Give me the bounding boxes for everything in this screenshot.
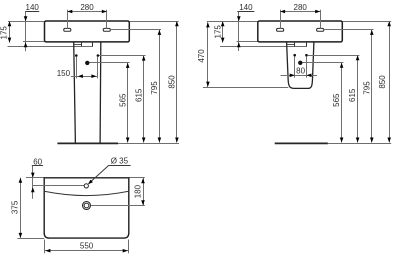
dim 140 arrow down at rim <box>237 16 241 21</box>
dim 280 line <box>280 11 320 13</box>
dim 140 vertical line <box>25 12 27 52</box>
svg-text:565: 565 <box>118 93 127 107</box>
svg-text:175: 175 <box>0 26 8 40</box>
svg-text:375: 375 <box>11 200 20 214</box>
dim 615 line <box>357 55 359 142</box>
dim 850 line <box>389 21 391 142</box>
dim 795 line <box>371 30 373 143</box>
svg-text:140: 140 <box>26 3 40 12</box>
tap hole circle <box>84 184 88 188</box>
floor line thick <box>57 142 118 144</box>
fixing hole left dot <box>293 54 296 57</box>
trap step line <box>287 44 295 46</box>
dim 60 vertical line <box>32 166 34 199</box>
trap notch right edge <box>92 42 94 47</box>
trap step line <box>74 44 82 46</box>
dim 150 arrow left <box>78 74 83 78</box>
svg-text:150: 150 <box>57 69 71 78</box>
drain hole dot <box>298 61 302 65</box>
svg-text:795: 795 <box>362 81 371 95</box>
basin body front view <box>258 21 343 42</box>
dim 60 arrow up <box>31 187 35 192</box>
dim 175 arrow down <box>8 38 12 43</box>
dim 565 line <box>127 63 129 143</box>
ext line drain to 180 <box>91 205 145 207</box>
fixing hole right dot <box>97 54 100 57</box>
basin bottom extension left <box>237 41 258 43</box>
dim 850 line <box>176 21 178 142</box>
dia 35 underline <box>109 165 131 167</box>
rim extension line left <box>207 21 258 23</box>
dim 550 line <box>45 250 129 252</box>
fixing hole left dot <box>75 54 78 57</box>
dim 280 left extension <box>67 10 69 29</box>
dim 565 line <box>341 63 343 143</box>
dim 175 line <box>9 21 11 42</box>
pedestal left edge <box>74 42 76 143</box>
drain inner circle <box>84 203 89 208</box>
svg-text:80: 80 <box>296 67 305 76</box>
dim 280 arrow left <box>67 10 72 14</box>
trap notch left edge <box>294 42 296 47</box>
drain hole dot <box>85 61 89 65</box>
right overflow slot <box>317 28 324 31</box>
svg-text:850: 850 <box>378 75 387 89</box>
floor line thin continuation <box>118 143 179 145</box>
semi-pedestal outline <box>287 42 314 88</box>
dim 280 right extension <box>106 10 108 29</box>
ext line semi-pedestal bottom <box>203 87 288 89</box>
dim 140 arrow down at rim <box>24 16 28 21</box>
dia 35 arrow <box>87 180 93 186</box>
fixing hole right dot <box>305 54 308 57</box>
trap bottom line extended left <box>220 46 307 48</box>
dim 80 arrow pointing right <box>290 74 295 78</box>
rim extension line left <box>8 21 45 23</box>
dim 150 fixing hole ext left <box>76 57 78 79</box>
inner bowl edge curve <box>45 191 128 195</box>
trap notch left edge <box>81 42 83 47</box>
dim 550 ext left <box>44 240 46 254</box>
pedestal right edge <box>99 42 102 143</box>
trap notch right edge <box>306 42 308 47</box>
ext line overflow to 795 <box>110 29 162 31</box>
dim 280 arrow right <box>102 10 107 14</box>
dim 60 underline <box>32 165 43 167</box>
basin body front view <box>45 21 130 42</box>
svg-text:850: 850 <box>168 75 177 89</box>
dim 150 line <box>71 76 98 78</box>
dim 140 underline <box>237 11 254 13</box>
tap hole line <box>33 185 84 187</box>
svg-text:280: 280 <box>80 3 94 12</box>
dim 280 left extension <box>280 10 282 29</box>
svg-text:140: 140 <box>239 3 253 12</box>
dim 795 line <box>159 30 161 143</box>
ext line drain to 565 <box>303 62 344 64</box>
dim 140 arrow up at basin bottom <box>24 42 28 47</box>
dim 140 arrow up at basin bottom <box>237 42 241 47</box>
back edge ext left <box>26 177 44 179</box>
dim 140 underline <box>25 11 39 13</box>
dim 60 arrow down <box>31 173 35 178</box>
dim 375 line <box>20 178 22 238</box>
floor line thin continuation <box>328 143 391 145</box>
svg-text:795: 795 <box>150 81 159 95</box>
dim 550 ext right <box>128 240 130 254</box>
dim 80 line <box>281 75 318 77</box>
ext line overflow to 795 <box>323 29 374 31</box>
ext line fixing to 615 <box>308 55 359 57</box>
svg-text:Ø 35: Ø 35 <box>111 156 129 165</box>
dim 280 right extension <box>320 10 322 29</box>
dim 375 bottom ext <box>17 238 44 240</box>
left overflow slot <box>277 28 284 31</box>
dim 180 line <box>143 178 145 205</box>
rim extension line right <box>342 21 391 23</box>
svg-text:550: 550 <box>80 242 94 251</box>
dim 280 line <box>67 11 107 13</box>
rim extension line right (to 850) <box>129 21 178 23</box>
left overflow slot <box>64 28 71 31</box>
trap bottom line extended left <box>8 46 93 48</box>
right overflow slot <box>103 28 110 31</box>
dim 615 line <box>143 56 145 143</box>
dia 35 leader <box>89 165 109 183</box>
svg-text:470: 470 <box>197 49 206 63</box>
dim 150 arrow right <box>91 74 96 78</box>
svg-text:565: 565 <box>332 93 341 107</box>
dim 80 fixing ext left <box>294 56 296 77</box>
dim 80 fixing ext right <box>306 56 308 77</box>
dim 470 line <box>207 22 209 87</box>
ext line drain to 565 <box>90 62 130 64</box>
dim 175 arrow up <box>8 21 12 26</box>
drain outer circle <box>83 202 91 210</box>
svg-text:180: 180 <box>134 184 143 198</box>
dim 140 vertical line <box>238 12 240 51</box>
svg-text:280: 280 <box>294 3 308 12</box>
back edge ext right <box>129 177 145 179</box>
basin bottom extension left <box>23 41 45 43</box>
svg-text:615: 615 <box>134 88 143 102</box>
dim 150 fixing hole ext right <box>97 57 99 79</box>
dim 175 line <box>222 21 224 42</box>
svg-text:615: 615 <box>348 88 357 102</box>
basin plan outline <box>44 178 129 238</box>
dim 80 arrow pointing left <box>307 74 312 78</box>
svg-text:175: 175 <box>213 25 222 39</box>
ext line fixing to 615 <box>99 55 146 57</box>
floor line thick <box>275 142 328 144</box>
